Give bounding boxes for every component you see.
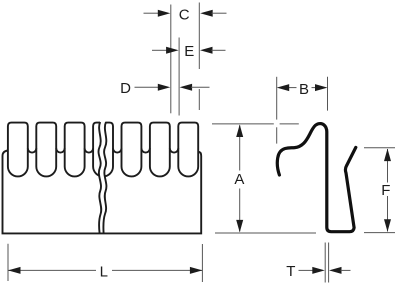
break line left [99,122,102,233]
contact tube 2 [36,123,56,177]
dim E arrow left [166,47,179,54]
dim B arrow left [277,84,290,91]
cusp between tubes 2-3 [56,148,64,152]
dim F top extension [364,147,395,149]
dim T leader right [341,269,351,271]
svg-text:D: D [120,80,131,97]
dim C arrow right [200,10,213,17]
dim L extension right [201,244,203,282]
dim D arrow right [180,84,193,91]
dim F arrow up [384,149,391,162]
extension line V3 (tooth 7 right edge) [198,3,200,70]
contact tube 3 [65,123,85,177]
contact tube 4 (cut by break) [93,123,113,177]
svg-text:E: E [184,43,194,60]
svg-text:C: C [179,6,190,23]
dim L extension left [7,244,9,281]
dim F arrow down [384,219,391,232]
cusp between tubes 4-5 [113,148,122,152]
svg-text:F: F [381,182,390,199]
dim L arrow left [8,267,21,274]
extension line V2 (tooth 7 left edge) [178,38,180,116]
dim T extension left [324,243,326,283]
dim F bottom extension [364,232,395,234]
svg-text:T: T [286,263,295,280]
contact tube 7 [178,123,198,177]
dim A line [239,125,241,170]
svg-text:A: A [234,171,244,188]
dim L line [8,269,96,271]
svg-text:L: L [100,264,108,281]
clip profile [277,124,355,232]
dim C leader right [212,12,227,14]
dim D leader right [191,86,210,88]
dim A arrow up [236,125,243,138]
contact tube 6 [150,123,170,177]
dim B line [289,87,297,89]
dim T arrow right [329,267,342,274]
terminal strip body [3,151,202,234]
dim T extension right [328,243,330,283]
break line right [103,122,106,233]
dim B arrow right [315,84,328,91]
dim B extension left [276,77,278,120]
dim D arrow left [158,84,171,91]
contact tube 1 [8,123,28,177]
dim C arrow left [158,10,171,17]
dim T arrow left [312,267,325,274]
contact tube 5 [122,123,142,177]
dim B extension right [327,77,329,111]
extension line V1 (tooth 6 right edge) [170,5,172,114]
dim C leader left [144,12,160,14]
dim E leader right [211,49,225,51]
cusp between tubes 3-4 [85,148,94,152]
dim T leader left [299,269,314,271]
break river (white gap) [99,121,107,232]
dim L arrow right [190,267,203,274]
dim A top extension [212,123,274,125]
cusp between tubes 1-2 [28,148,37,152]
svg-text:B: B [299,81,309,98]
dim A bottom extension [215,232,316,234]
dim F line [387,149,389,183]
cusp between tubes 5-6 [141,148,150,152]
dim E leader left [152,49,167,51]
dim A arrow down [236,220,243,233]
dim E arrow right [200,47,213,54]
cusp between tubes 6-7 [170,148,179,152]
dim D leader left [135,86,160,88]
